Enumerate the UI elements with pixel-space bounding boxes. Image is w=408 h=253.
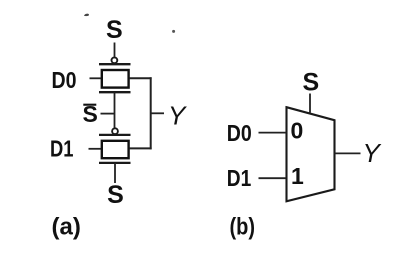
- wire D0 input (part b): [259, 132, 287, 134]
- nMOS gate bar (bottom transmission gate): [99, 162, 131, 164]
- wire D0 input: [90, 77, 102, 79]
- svg-text:S: S: [107, 181, 124, 209]
- transmission gate body (bottom): [102, 141, 129, 158]
- svg-text:0: 0: [291, 117, 304, 143]
- speck (scan noise, upper left): [84, 14, 89, 16]
- transmission gate body (top): [102, 70, 129, 88]
- pMOS gate bubble (bottom transmission gate): [112, 128, 118, 134]
- svg-text:(b): (b): [230, 214, 256, 241]
- wire from S to pMOS bubble: [114, 43, 116, 57]
- wire D1 input (part b): [259, 177, 287, 179]
- svg-text:Y: Y: [168, 100, 187, 130]
- wire D1 input: [89, 148, 102, 150]
- svg-text:1: 1: [291, 163, 304, 189]
- wire Y output (part b): [335, 152, 361, 154]
- svg-text:S: S: [106, 16, 123, 44]
- svg-text:Y: Y: [363, 138, 382, 168]
- wire nMOS gate of top TG to Sbar node: [114, 92, 116, 127]
- svg-text:S: S: [302, 69, 319, 97]
- pMOS gate bar (bottom transmission gate): [99, 134, 131, 136]
- multiplexer body (trapezoid): [287, 107, 335, 201]
- svg-text:D1: D1: [227, 165, 252, 191]
- svg-text:D0: D0: [52, 67, 77, 93]
- wire bottom gate output: [130, 147, 152, 149]
- wire S to mux top edge: [309, 94, 311, 113]
- pMOS gate bar (top transmission gate): [99, 63, 131, 65]
- svg-text:(a): (a): [52, 214, 81, 241]
- speck (scan noise dot, upper right): [172, 30, 175, 33]
- pMOS gate bubble (top transmission gate): [112, 57, 118, 63]
- svg-text:D0: D0: [227, 120, 252, 146]
- wire top gate output: [130, 77, 152, 79]
- nMOS gate bar (top transmission gate): [99, 91, 131, 93]
- svg-text:D1: D1: [50, 136, 74, 162]
- wire nMOS gate of bottom TG to bottom S: [114, 163, 116, 183]
- wire output vertical bus: [150, 77, 152, 149]
- wire Sbar: [101, 113, 115, 115]
- wire Y stub (part a): [151, 112, 164, 114]
